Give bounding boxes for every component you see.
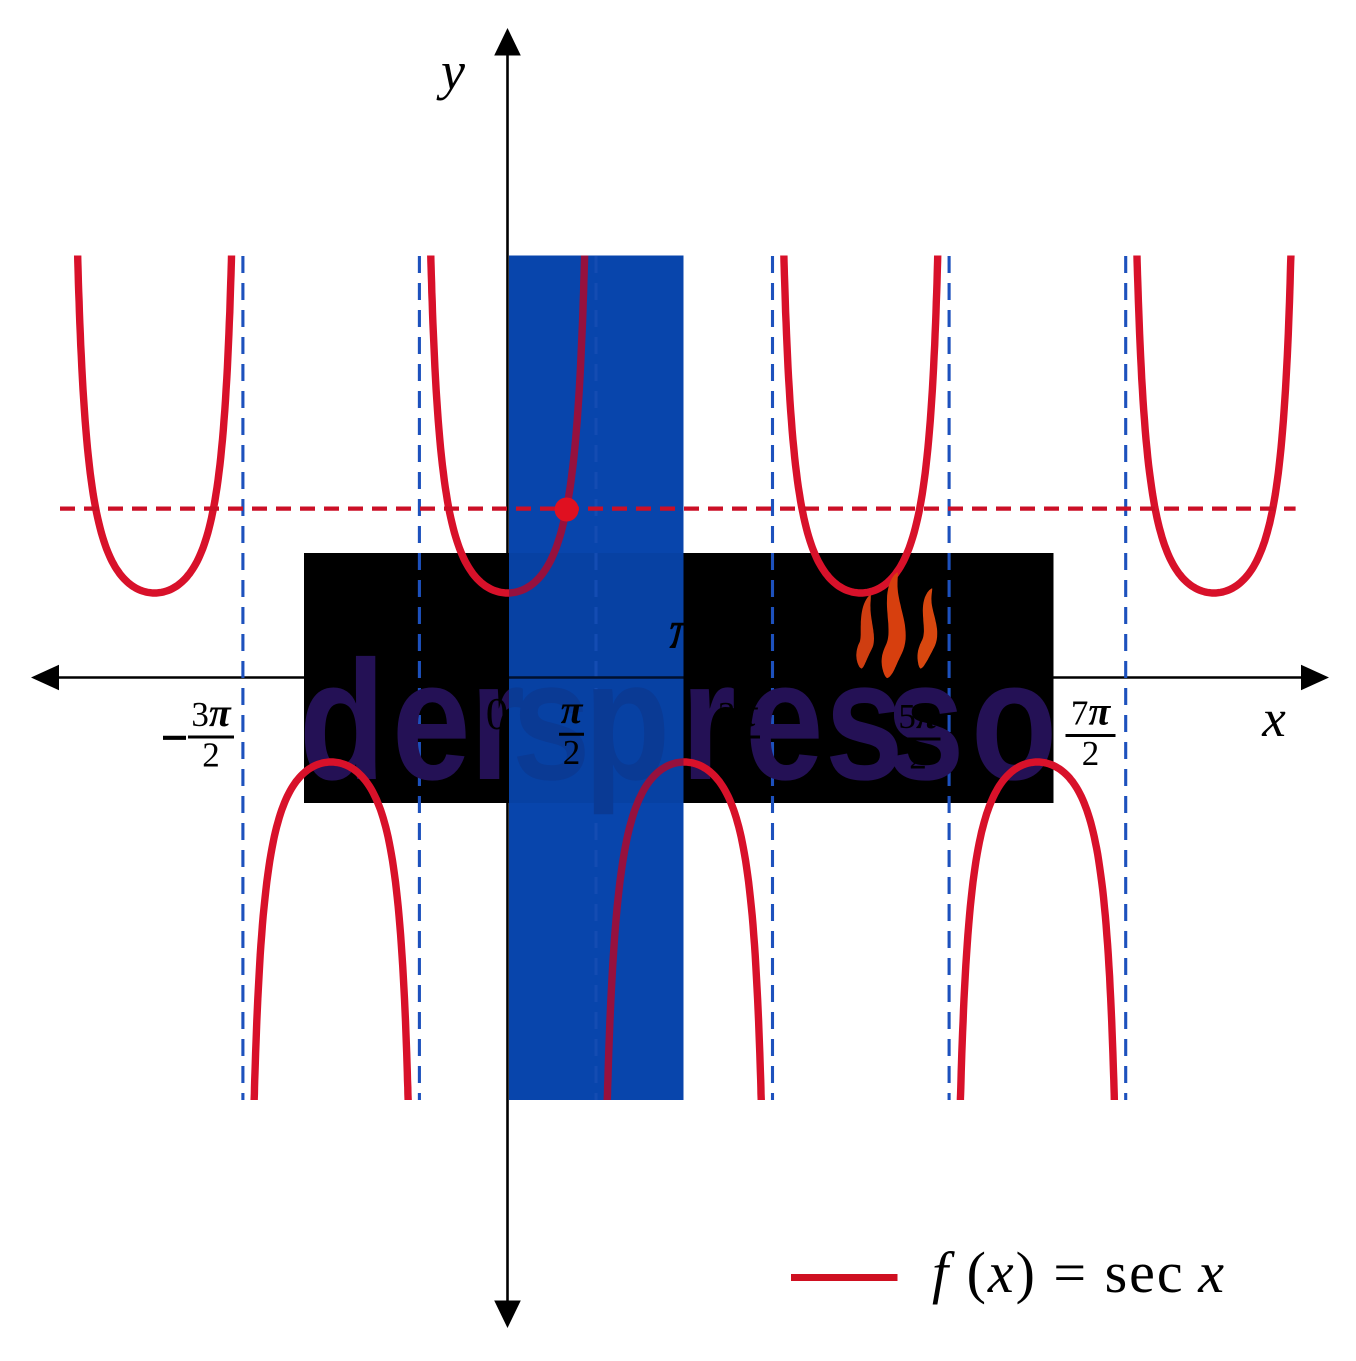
svg-text:2: 2: [563, 733, 581, 772]
svg-text:2: 2: [909, 738, 927, 777]
svg-text:7π: 7π: [1071, 688, 1112, 733]
svg-text:π: π: [561, 687, 584, 732]
svg-text:3π: 3π: [718, 690, 759, 735]
svg-text:f (x) = sec x: f (x) = sec x: [932, 1240, 1224, 1305]
svg-text:2: 2: [1082, 734, 1100, 773]
svg-text:0: 0: [486, 689, 509, 739]
svg-text:x: x: [1261, 690, 1286, 748]
svg-text:2: 2: [202, 736, 220, 775]
svg-text:5π: 5π: [898, 692, 939, 737]
svg-text:2: 2: [729, 736, 747, 775]
svg-text:π: π: [669, 599, 701, 660]
svg-text:3π: 3π: [191, 690, 232, 735]
svg-text:y: y: [436, 41, 465, 101]
